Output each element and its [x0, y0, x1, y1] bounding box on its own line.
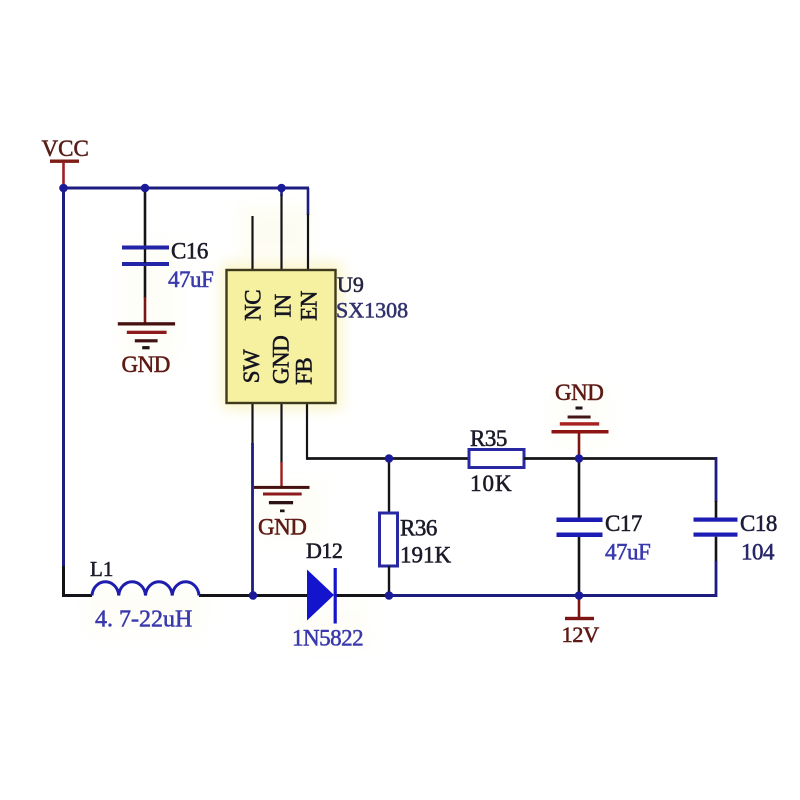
svg-text:1N5822: 1N5822 — [292, 626, 363, 651]
svg-text:R36: R36 — [400, 516, 437, 541]
svg-text:NC: NC — [240, 290, 265, 321]
svg-text:D12: D12 — [306, 538, 342, 563]
svg-text:SX1308: SX1308 — [336, 298, 408, 323]
svg-text:SW: SW — [239, 349, 264, 383]
svg-text:47uF: 47uF — [605, 540, 650, 565]
svg-text:GND: GND — [122, 352, 170, 377]
svg-text:VCC: VCC — [42, 136, 89, 161]
svg-text:12V: 12V — [562, 622, 600, 647]
svg-text:C16: C16 — [171, 239, 208, 264]
svg-text:C17: C17 — [605, 511, 642, 536]
svg-text:GND: GND — [258, 515, 306, 540]
svg-text:L1: L1 — [90, 557, 113, 581]
svg-text:47uF: 47uF — [168, 267, 213, 292]
svg-text:R35: R35 — [470, 426, 507, 451]
svg-text:IN: IN — [271, 293, 296, 317]
svg-text:GND: GND — [269, 336, 294, 384]
svg-text:U9: U9 — [337, 272, 364, 297]
svg-text:GND: GND — [555, 380, 603, 405]
svg-text:FB: FB — [292, 358, 317, 385]
svg-text:C18: C18 — [740, 511, 777, 536]
svg-text:4. 7-22uH: 4. 7-22uH — [95, 607, 192, 633]
svg-text:104: 104 — [741, 540, 775, 565]
svg-text:191K: 191K — [400, 543, 452, 568]
svg-text:10K: 10K — [470, 471, 513, 496]
svg-text:EN: EN — [296, 290, 321, 321]
